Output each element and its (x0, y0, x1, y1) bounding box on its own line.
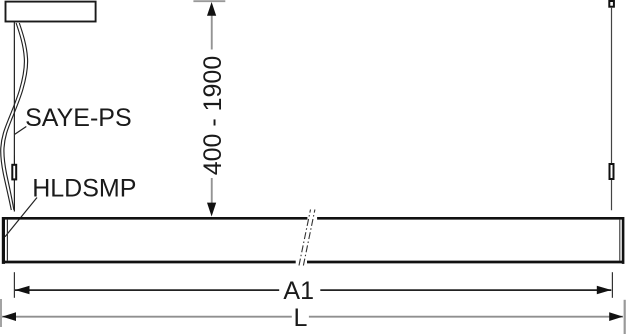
luminaire bottom edge (5, 261, 623, 264)
dimension A1: extension ticks (14, 272, 612, 298)
component on left cable (cable gripper) (12, 165, 16, 180)
ceiling bracket (right suspension, top square) (609, 1, 614, 7)
dimension A1: arrows (15, 286, 611, 294)
svg-text:400 - 1900: 400 - 1900 (199, 56, 227, 176)
label HLDSMP (32, 175, 136, 203)
power cable SAYE-PS (wavy, two strokes) (1, 23, 28, 210)
wire (left suspension cable, straight) (13, 22, 15, 212)
luminaire left end cap (3, 217, 7, 264)
arrow up (vertical dimension) (207, 2, 216, 16)
svg-text:HLDSMP: HLDSMP (32, 175, 136, 203)
component on right cable (cable gripper) (610, 164, 614, 179)
vertical dimension extension line (top, at ceiling) (193, 0, 225, 2)
luminaire right end cap (620, 217, 623, 264)
dimension A1: line (15, 289, 611, 291)
break mark (dash-dot) (299, 210, 315, 266)
vertical dimension line 400-1900 (211, 15, 213, 204)
label 400 - 1900 (rotated) (199, 56, 227, 176)
leader HLDSMP (5, 198, 37, 237)
label SAYE-PS (25, 104, 132, 132)
dimension L: arrows (2, 312, 623, 321)
leader SAYE-PS (15, 127, 26, 135)
dimension L: line (2, 316, 623, 318)
svg-text:A1: A1 (283, 277, 314, 305)
svg-text:L: L (294, 304, 308, 332)
svg-text:SAYE-PS: SAYE-PS (25, 104, 132, 132)
label A1 (283, 277, 314, 305)
luminaire top edge (5, 217, 623, 220)
wire (right suspension cable) (611, 8, 613, 211)
arrow down (vertical dimension) (207, 203, 216, 217)
label L (294, 304, 308, 332)
ceiling box (6, 2, 96, 22)
dimension L: extension lines (1, 299, 625, 334)
